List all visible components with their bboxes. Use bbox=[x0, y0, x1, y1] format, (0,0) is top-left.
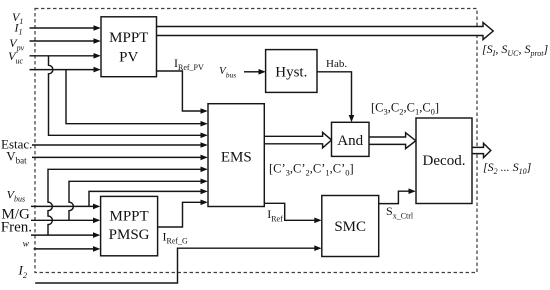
bus arrow [S_2..S_10] from Decod to output bbox=[472, 143, 491, 157]
svg-text:And: And bbox=[337, 133, 363, 149]
block EMS bbox=[208, 104, 264, 207]
svg-text:Sx_Ctrl: Sx_Ctrl bbox=[386, 204, 414, 221]
bus arrow [S_I,S_UC,S_prot] from MPPT PV to output bbox=[157, 22, 494, 39]
svg-text:Vbus: Vbus bbox=[7, 188, 25, 204]
block Hyst bbox=[266, 50, 317, 93]
wire I_Ref from EMS to SMC bbox=[264, 203, 321, 223]
wire Fren input to MPPT PMSG bbox=[31, 232, 100, 238]
bus arrow [C'3..C'0] from EMS to And bbox=[264, 132, 331, 148]
svg-text:[S2 ... S10]: [S2 ... S10] bbox=[483, 160, 532, 176]
block MPPT PMSG bbox=[101, 196, 158, 255]
wire M/G branch to EMS with hop over V_bus line bbox=[69, 179, 208, 221]
wire w input to MPPT PMSG bbox=[34, 246, 101, 252]
svg-text:SMC: SMC bbox=[334, 219, 366, 235]
svg-text:Hab.: Hab. bbox=[326, 58, 347, 70]
svg-text:IRef_G: IRef_G bbox=[163, 229, 189, 245]
svg-text:[SI, SUC, Sprot]: [SI, SUC, Sprot] bbox=[482, 42, 549, 58]
block MPPT PV bbox=[101, 17, 157, 77]
wire V_uc input bbox=[30, 67, 101, 73]
svg-text:[C3,C2,C1,C0]: [C3,C2,C1,C0] bbox=[371, 101, 439, 117]
label MPPT PV bbox=[109, 30, 148, 66]
bus arrow [C3..C0] from And to Decod bbox=[369, 133, 416, 149]
wire Estac. input to EMS bbox=[32, 142, 208, 148]
svg-text:PV: PV bbox=[119, 50, 138, 66]
svg-text:Fren.: Fren. bbox=[1, 220, 32, 236]
wire M/G input to MPPT PMSG bbox=[31, 218, 100, 224]
svg-text:MPPT: MPPT bbox=[110, 209, 149, 225]
svg-text:IRef_PV: IRef_PV bbox=[174, 56, 204, 72]
svg-text:Decod.: Decod. bbox=[423, 153, 466, 169]
svg-text:Vbus: Vbus bbox=[219, 65, 236, 80]
svg-text:w: w bbox=[23, 239, 30, 249]
wire I_1 input bbox=[30, 38, 101, 44]
wire V_bat input to EMS bbox=[32, 155, 208, 161]
wire I_Ref_G from MPPT PMSG to EMS bbox=[158, 200, 208, 228]
wire S_x_Ctrl from SMC to Decod bbox=[379, 188, 416, 203]
wire I_2 input to SMC bbox=[35, 245, 321, 283]
svg-text:PMSG: PMSG bbox=[109, 227, 150, 243]
svg-text:MPPT: MPPT bbox=[109, 30, 148, 46]
svg-text:EMS: EMS bbox=[221, 150, 252, 166]
wire V_uc branch to EMS bbox=[66, 70, 208, 127]
wire V_pv branch to EMS with hop over V_uc line bbox=[49, 56, 208, 138]
block Decod bbox=[416, 118, 472, 204]
svg-text:Hyst.: Hyst. bbox=[275, 65, 307, 81]
wire I_Ref_PV from MPPT PV to EMS bbox=[157, 71, 208, 114]
wire V_bus to Hyst bbox=[244, 69, 266, 75]
block SMC bbox=[322, 196, 379, 257]
wire Hab. from Hyst to And bbox=[317, 72, 354, 123]
wire V_bus branch to EMS bbox=[89, 189, 208, 207]
svg-text:[C’3,C’2,C’1,C’0]: [C’3,C’2,C’1,C’0] bbox=[269, 162, 354, 178]
block And bbox=[332, 122, 370, 156]
wire Fren branch to EMS with hops over V_bus and M/G lines bbox=[48, 167, 208, 236]
wire V_bus input to MPPT PMSG bbox=[31, 204, 100, 210]
svg-text:IRef: IRef bbox=[267, 207, 283, 224]
svg-text:I2: I2 bbox=[18, 262, 28, 279]
wire V_1 input bbox=[30, 25, 101, 31]
wire V_pv input bbox=[30, 53, 101, 59]
dashed system boundary bbox=[35, 9, 477, 273]
label MPPT PMSG bbox=[109, 209, 150, 243]
